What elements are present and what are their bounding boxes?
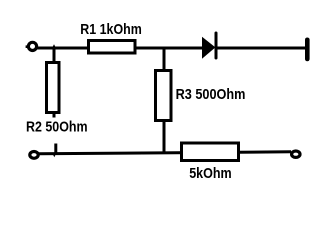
wire: R2 to bottom net bbox=[54, 144, 57, 156]
diode D1 cathode bar bbox=[215, 33, 218, 58]
resistor R3 body bbox=[156, 71, 172, 121]
resistor R1 body bbox=[89, 41, 136, 54]
terminal: input (open circle, top left) bbox=[28, 42, 36, 50]
wire: top net, input terminal to R1 left bbox=[36, 47, 91, 50]
terminal: output (filled bar, top right) bbox=[305, 40, 310, 59]
node: junction of R2 with top wire bbox=[53, 44, 55, 46]
svg-text:R2 50Ohm: R2 50Ohm bbox=[26, 119, 88, 136]
wire: top wire down to R2 bbox=[53, 47, 56, 63]
wire: R2 bottom stub bbox=[53, 112, 56, 118]
wire: top wire down to R3 bbox=[163, 47, 166, 71]
terminal: bottom right (open oval) bbox=[292, 151, 300, 157]
node: junction of R2 with bottom wire bbox=[53, 155, 55, 157]
wire: R1 right to diode anode (node with R3 tap) bbox=[134, 47, 203, 50]
diode D1 anode triangle bbox=[202, 37, 215, 59]
svg-text:5kOhm: 5kOhm bbox=[189, 165, 232, 182]
svg-text:R3 500Ohm: R3 500Ohm bbox=[176, 86, 246, 103]
resistor body 5kOhm bbox=[182, 143, 239, 161]
wire: diode cathode to output terminal bbox=[216, 47, 306, 50]
wire: bottom net bbox=[38, 152, 291, 154]
terminal: bottom left (open oval) bbox=[30, 152, 38, 159]
svg-text:R1 1kOhm: R1 1kOhm bbox=[80, 21, 142, 38]
resistor R2 body bbox=[47, 63, 60, 113]
wire: R3 bottom to bottom net bbox=[163, 120, 166, 154]
terminal: input left nub bbox=[26, 45, 29, 48]
